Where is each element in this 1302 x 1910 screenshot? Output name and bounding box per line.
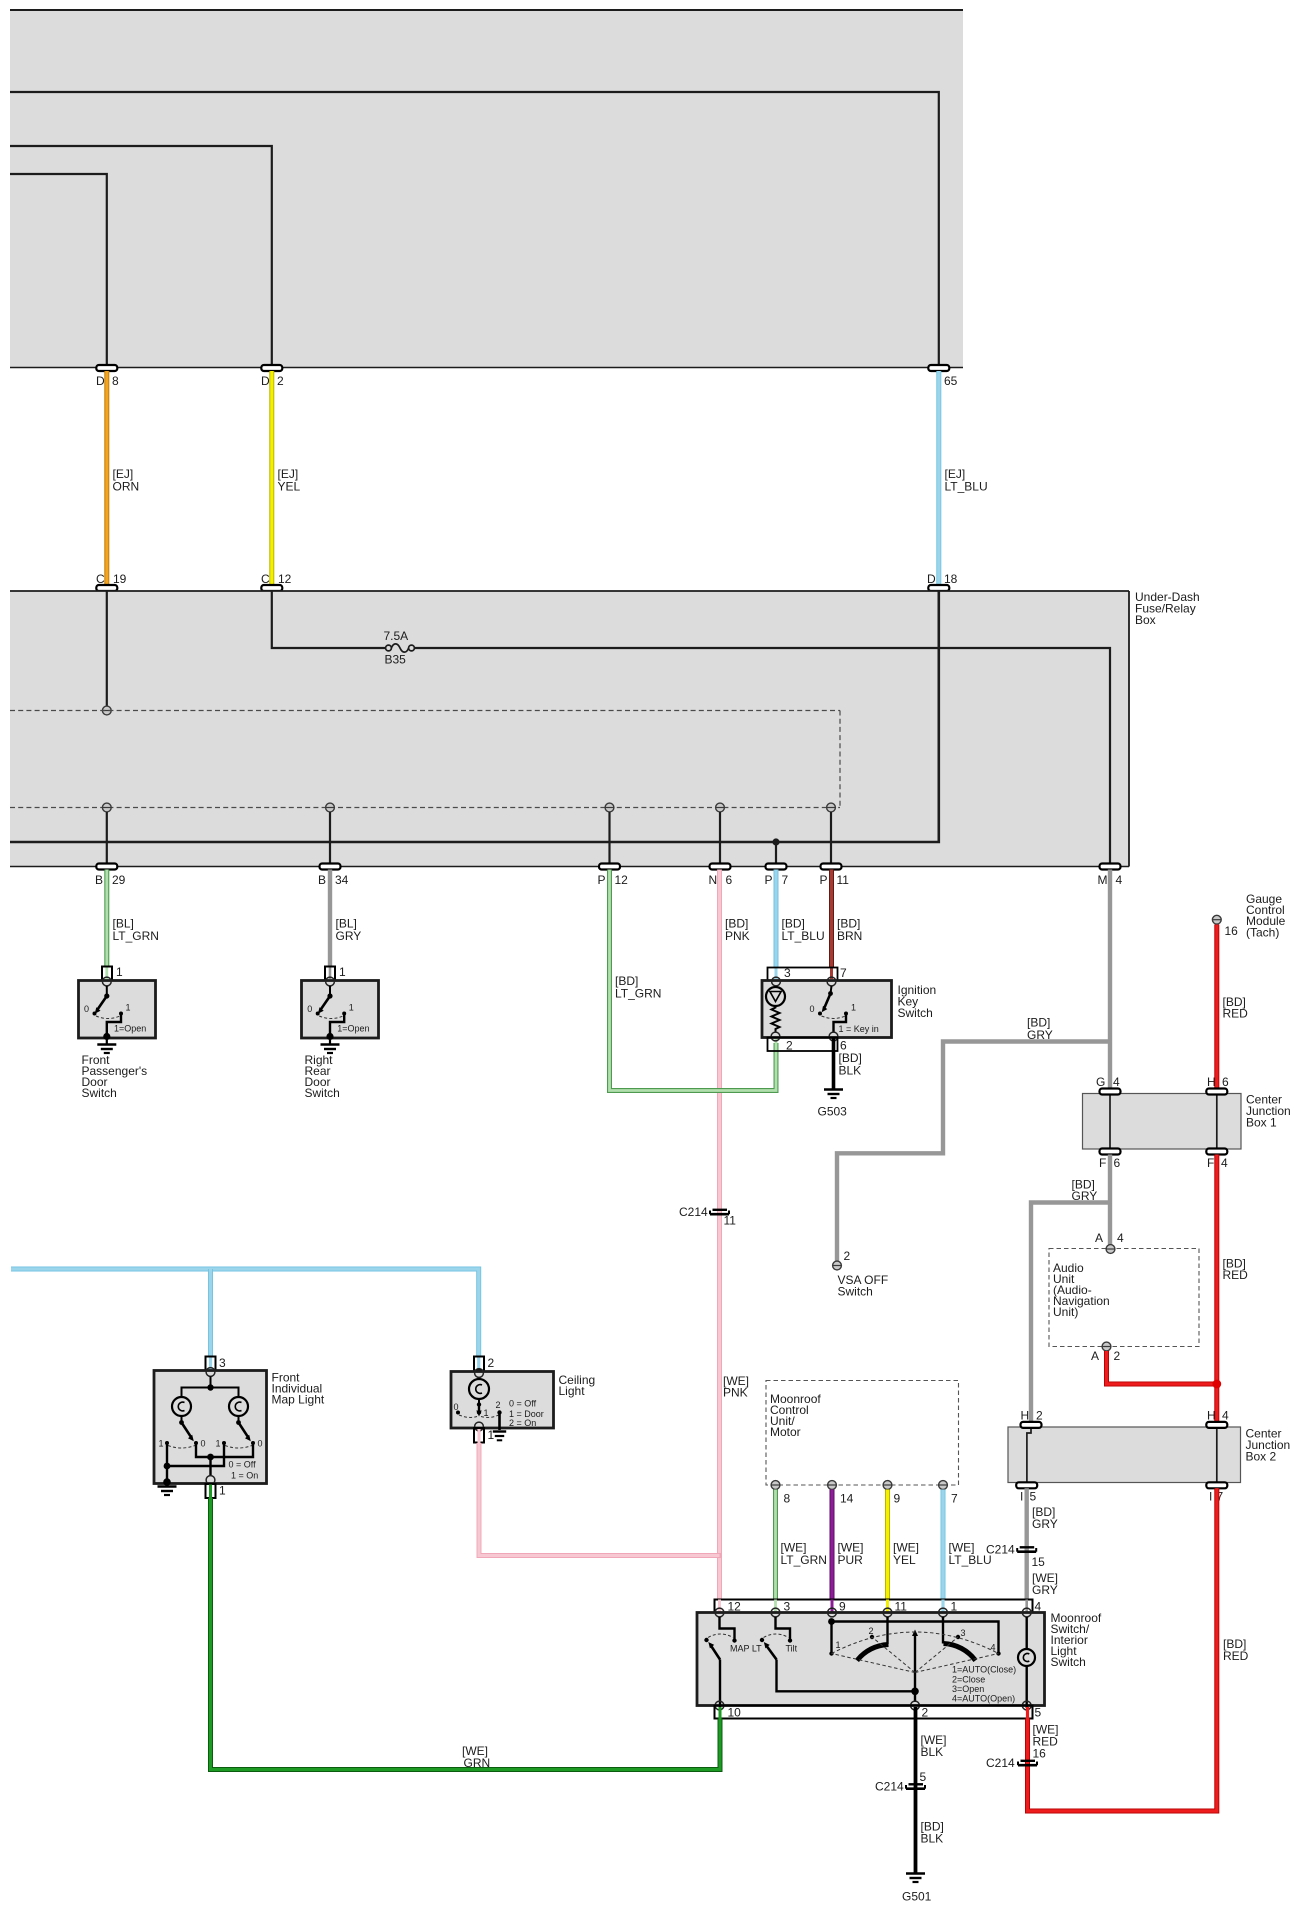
connector N6 — [709, 864, 733, 888]
ignition switch lever — [831, 986, 832, 994]
strip wire stubs — [720, 1600, 1027, 1613]
svg-text:I: I — [1209, 1490, 1212, 1504]
wire [EJ] ORN — [107, 371, 139, 585]
svg-text:8: 8 — [784, 1492, 791, 1506]
internal pin B34 — [326, 803, 335, 864]
internal bus line to D18 — [10, 591, 939, 842]
svg-text:2: 2 — [844, 1249, 851, 1263]
moonroof switch label — [1051, 1611, 1102, 1669]
wire [WE] LT_BLU pin 7 to moonroof switch pin 1 — [943, 1490, 992, 1612]
svg-text:2: 2 — [786, 1039, 793, 1053]
svg-text:1=AUTO(Close): 1=AUTO(Close) — [952, 1665, 1016, 1675]
svg-text:B35: B35 — [385, 653, 407, 667]
wire [BD] RED gauge to H6 — [1217, 925, 1248, 1090]
svg-text:2: 2 — [1036, 1409, 1043, 1423]
map light switch left — [181, 1416, 183, 1423]
svg-text:BRN: BRN — [837, 929, 862, 943]
svg-text:M: M — [1098, 873, 1108, 887]
svg-text:1: 1 — [851, 1003, 856, 1013]
svg-text:G501: G501 — [902, 1890, 932, 1904]
connector P11 — [820, 864, 850, 888]
svg-text:4: 4 — [1221, 1156, 1228, 1170]
svg-text:ORN: ORN — [113, 480, 140, 494]
wire [BD] LT_BLU P7 to ignition pin 3 — [776, 870, 825, 980]
svg-text:12: 12 — [278, 572, 292, 586]
wire [BD] PNK N6 to moonroof switch pin 12 — [720, 870, 750, 1612]
map light bulb right — [229, 1397, 248, 1416]
svg-text:H: H — [1021, 1409, 1030, 1423]
svg-text:Unit): Unit) — [1053, 1305, 1078, 1319]
svg-text:4: 4 — [1116, 873, 1123, 887]
svg-text:4: 4 — [1117, 1231, 1124, 1245]
VSA OFF switch pin 2 — [833, 1249, 889, 1299]
front individual map light — [154, 1356, 325, 1498]
map light switch right — [238, 1416, 240, 1423]
wire [BD] GRY M4 down — [1108, 870, 1112, 1090]
wire from fuse to M4 — [414, 648, 1110, 864]
svg-text:19: 19 — [113, 572, 127, 586]
svg-text:BLK: BLK — [921, 1832, 944, 1846]
svg-text:LT_GRN: LT_GRN — [113, 929, 159, 943]
svg-text:7: 7 — [782, 873, 789, 887]
body bottom pin circles — [715, 1701, 1031, 1710]
svg-text:Switch: Switch — [898, 1006, 933, 1020]
fuse 7.5A B35 — [384, 629, 415, 667]
svg-text:11: 11 — [837, 873, 850, 887]
connector M4 — [1098, 864, 1123, 888]
gauge control module pin 16 — [1212, 892, 1285, 940]
svg-text:C214: C214 — [679, 1205, 708, 1219]
svg-text:RED: RED — [1223, 1649, 1249, 1663]
svg-text:GRY: GRY — [1032, 1583, 1058, 1597]
top distribution box — [10, 9, 963, 368]
moonroof switch connector strip top — [715, 1600, 1033, 1613]
svg-text:Switch: Switch — [305, 1086, 340, 1100]
svg-text:1: 1 — [159, 1439, 164, 1449]
wire P7 to bus — [775, 842, 777, 864]
dashed internal connector row 2 — [10, 807, 840, 809]
svg-text:PNK: PNK — [723, 1386, 748, 1400]
ceiling light pin 1 — [475, 1422, 484, 1431]
moonroof switch connector strip bottom — [715, 1706, 1042, 1720]
wire [BD] RED audio A2 branch — [1107, 1351, 1222, 1388]
ceiling light — [451, 1356, 595, 1443]
C214 pin 15 on GRY wire — [986, 1543, 1045, 1570]
svg-text:16: 16 — [1033, 1747, 1047, 1761]
svg-text:10: 10 — [728, 1706, 742, 1720]
internal pin P11 — [827, 803, 836, 864]
svg-text:Box: Box — [1135, 613, 1156, 627]
svg-text:5: 5 — [1035, 1706, 1042, 1720]
connector F6 — [1099, 1149, 1121, 1171]
wire to pin D8 — [10, 174, 107, 365]
svg-text:G: G — [1096, 1075, 1105, 1089]
svg-text:GRY: GRY — [1027, 1028, 1053, 1042]
dashed internal connector right edge — [839, 711, 841, 808]
svg-text:0: 0 — [454, 1402, 459, 1412]
svg-text:0 = Off: 0 = Off — [229, 1460, 257, 1470]
svg-text:YEL: YEL — [278, 480, 301, 494]
svg-text:0: 0 — [201, 1439, 206, 1449]
svg-text:9: 9 — [894, 1492, 901, 1506]
svg-text:N: N — [709, 873, 718, 887]
wire [WE] LT_GRN pin 8 to moonroof switch pin 3 — [776, 1490, 827, 1612]
junction dot P7 bus — [772, 838, 779, 845]
connector P12 — [598, 864, 629, 888]
svg-text:G503: G503 — [818, 1105, 848, 1119]
wire [BD] GRY branch to VSA OFF switch — [837, 1016, 1110, 1262]
svg-text:12: 12 — [615, 873, 629, 887]
connector C19 — [96, 572, 127, 591]
dashed internal connector row 1 — [10, 710, 840, 712]
svg-text:P: P — [820, 873, 828, 887]
wire from C19 to internal pin — [102, 591, 111, 715]
ceiling light switch — [478, 1399, 480, 1405]
map light output to pin 1 — [196, 1443, 253, 1457]
svg-text:B: B — [318, 873, 326, 887]
audio unit pin A4 — [1095, 1231, 1124, 1253]
svg-text:F: F — [1099, 1156, 1106, 1170]
map light ground branch — [167, 1443, 224, 1466]
svg-text:65: 65 — [944, 374, 958, 388]
ignition lamp — [766, 987, 785, 1006]
interior light bulb — [1018, 1617, 1035, 1708]
svg-text:0: 0 — [810, 1004, 815, 1014]
wire [BD] LT_GRN P12 to ignition pin 2 — [610, 870, 777, 1091]
svg-text:H: H — [1207, 1075, 1216, 1089]
ignition resistor — [772, 1006, 780, 1032]
center junction box 2 — [1008, 1427, 1290, 1483]
svg-text:1=Open: 1=Open — [114, 1024, 146, 1034]
svg-text:4: 4 — [991, 1643, 996, 1653]
svg-text:PNK: PNK — [725, 929, 750, 943]
svg-text:16: 16 — [1225, 924, 1239, 938]
svg-text:C214: C214 — [986, 1756, 1015, 1770]
svg-text:2 = On: 2 = On — [509, 1418, 536, 1428]
svg-text:2: 2 — [277, 374, 284, 388]
svg-text:BLK: BLK — [839, 1064, 862, 1078]
ground G503 — [818, 1090, 848, 1119]
svg-text:2: 2 — [496, 1400, 501, 1410]
svg-text:0: 0 — [84, 1004, 89, 1014]
svg-text:RED: RED — [1223, 1007, 1249, 1021]
svg-text:Switch: Switch — [1051, 1655, 1086, 1669]
svg-text:1 = On: 1 = On — [231, 1471, 258, 1481]
svg-text:LT_BLU: LT_BLU — [945, 480, 988, 494]
svg-text:0: 0 — [258, 1439, 263, 1449]
svg-text:C214: C214 — [875, 1780, 904, 1794]
moonroof control unit pin 14 — [828, 1481, 854, 1506]
ceiling light ground from contact 2 — [498, 1413, 501, 1431]
svg-text:H: H — [1207, 1409, 1216, 1423]
svg-text:GRY: GRY — [336, 929, 362, 943]
wire [BL] GRY to right rear door switch — [330, 870, 361, 980]
svg-text:4=AUTO(Open): 4=AUTO(Open) — [952, 1694, 1015, 1704]
connector D2 — [261, 365, 284, 388]
svg-text:7.5A: 7.5A — [384, 629, 409, 643]
svg-text:1: 1 — [116, 965, 123, 979]
wire [BD] BRN P11 to ignition pin 7 — [832, 870, 863, 980]
svg-text:6: 6 — [1222, 1075, 1229, 1089]
svg-text:2: 2 — [869, 1626, 874, 1636]
svg-text:Box 1: Box 1 — [1246, 1116, 1277, 1130]
connector F4 — [1206, 1149, 1228, 1171]
svg-text:LT_BLU: LT_BLU — [949, 1553, 992, 1567]
svg-text:6: 6 — [726, 873, 733, 887]
MAP LT switch — [704, 1617, 762, 1708]
internal pin B29 — [102, 803, 111, 864]
moonroof control unit pin 7 — [939, 1481, 958, 1506]
svg-text:3=Open: 3=Open — [952, 1684, 984, 1694]
svg-text:Light: Light — [559, 1384, 586, 1398]
svg-text:B: B — [95, 873, 103, 887]
center junction box 1 — [1083, 1093, 1291, 1150]
svg-text:1: 1 — [836, 1640, 841, 1650]
svg-text:5: 5 — [1030, 1490, 1037, 1504]
svg-text:1: 1 — [339, 965, 346, 979]
connector G4 — [1096, 1075, 1121, 1095]
connector H2 — [1021, 1409, 1044, 1428]
connector D18 — [927, 572, 958, 591]
svg-text:1 = Key in: 1 = Key in — [839, 1024, 879, 1034]
svg-text:GRN: GRN — [464, 1756, 491, 1770]
ignition key switch — [762, 966, 936, 1053]
svg-text:6: 6 — [1114, 1156, 1121, 1170]
wire [BD] BLK ignition pin 6 to G503 — [834, 1038, 862, 1090]
svg-text:RED: RED — [1223, 1268, 1249, 1282]
svg-text:1: 1 — [349, 1003, 354, 1013]
ground G501 — [902, 1874, 932, 1904]
svg-text:0: 0 — [307, 1004, 312, 1014]
connector I7 — [1206, 1482, 1227, 1503]
Tilt switch — [760, 1617, 915, 1691]
connector P7 — [765, 864, 789, 888]
svg-text:Tilt: Tilt — [786, 1644, 798, 1654]
svg-text:Switch: Switch — [838, 1285, 873, 1299]
wire [WE]/[BD] BLK moonroof pin 2 to G501 — [916, 1707, 947, 1873]
svg-text:1=Open: 1=Open — [337, 1024, 369, 1034]
svg-text:Switch: Switch — [82, 1086, 117, 1100]
internal pin P12 — [605, 803, 614, 864]
svg-text:1: 1 — [484, 1408, 489, 1418]
svg-text:11: 11 — [724, 1214, 737, 1228]
svg-text:D: D — [261, 374, 270, 388]
svg-text:P: P — [765, 873, 773, 887]
connector B29 — [95, 864, 126, 888]
moonroof switch body — [697, 1613, 1045, 1706]
ceiling light bulb — [469, 1379, 489, 1399]
wire from C12 to fuse — [272, 591, 386, 648]
moonroof control unit pin 9 — [883, 1481, 900, 1506]
wire [EJ] YEL — [272, 371, 301, 585]
wire [WE] YEL pin 9 to moonroof switch pin 11 — [888, 1490, 920, 1612]
svg-text:Map Light: Map Light — [272, 1393, 325, 1407]
svg-text:2: 2 — [1114, 1349, 1121, 1363]
internal pin N6 — [716, 803, 725, 864]
connector C12 — [261, 572, 292, 591]
body top pin circles — [715, 1608, 1031, 1617]
svg-text:PUR: PUR — [838, 1553, 864, 1567]
strip pin numbers — [728, 1600, 1042, 1614]
svg-text:7: 7 — [951, 1492, 958, 1506]
svg-text:BLK: BLK — [921, 1745, 944, 1759]
connector I5 — [1016, 1482, 1037, 1503]
wire to pin 65 — [10, 92, 939, 365]
connector B34 — [318, 864, 349, 888]
wire [WE] PUR pin 14 to moonroof switch pin 9 — [832, 1490, 864, 1612]
svg-text:LT_GRN: LT_GRN — [615, 987, 661, 1001]
svg-text:GRY: GRY — [1072, 1189, 1098, 1203]
C214 pin 16 on RED wire — [986, 1756, 1037, 1770]
connector H4 — [1206, 1409, 1229, 1428]
svg-text:GRY: GRY — [1032, 1517, 1058, 1531]
moonroof rotary switch — [828, 1617, 1016, 1704]
svg-text:LT_BLU: LT_BLU — [782, 929, 825, 943]
connector 65 — [928, 365, 957, 388]
svg-text:5: 5 — [920, 1770, 927, 1784]
wire to pin D2 — [10, 146, 272, 365]
svg-text:1: 1 — [219, 1484, 226, 1498]
svg-text:14: 14 — [840, 1492, 854, 1506]
svg-text:7: 7 — [840, 966, 847, 980]
wire [BD] RED F4 to H4 — [1217, 1155, 1248, 1423]
svg-text:LT_GRN: LT_GRN — [781, 1553, 827, 1567]
wire [WE] PNK ceiling light to moonroof switch — [479, 1374, 749, 1556]
C214 pin 11 on PNK wire — [679, 1205, 736, 1228]
wire [BD] GRY F6 to audio unit A4 and CJB2 H2 — [1031, 1155, 1110, 1423]
moonroof control unit pin 8 — [771, 1481, 790, 1506]
wire [WE]/[BD] RED moonroof pin 5 to I7 — [1028, 1488, 1249, 1811]
svg-text:1: 1 — [126, 1003, 131, 1013]
svg-text:Box 2: Box 2 — [1246, 1450, 1277, 1464]
svg-text:29: 29 — [112, 873, 126, 887]
svg-text:4: 4 — [1113, 1075, 1120, 1089]
right rear door switch — [302, 965, 379, 1100]
svg-text:I: I — [1020, 1490, 1023, 1504]
audio unit pin A2 — [1091, 1342, 1121, 1363]
connector D8 — [96, 365, 119, 388]
svg-text:4: 4 — [1222, 1409, 1229, 1423]
wire [BD]/[WE] GRY I5 to moonroof pin 4 — [1027, 1488, 1058, 1611]
svg-text:2: 2 — [488, 1356, 495, 1370]
front passenger's door switch — [79, 965, 156, 1100]
svg-text:YEL: YEL — [893, 1553, 916, 1567]
svg-text:(Tach): (Tach) — [1246, 926, 1279, 940]
svg-text:1: 1 — [488, 1428, 495, 1442]
svg-text:2=Close: 2=Close — [952, 1675, 985, 1685]
connector H6 — [1206, 1075, 1229, 1095]
svg-text:Motor: Motor — [770, 1425, 801, 1439]
svg-text:2: 2 — [922, 1706, 929, 1720]
wire [EJ] LT_BLU — [939, 371, 988, 585]
svg-text:3: 3 — [219, 1356, 226, 1370]
moonroof control unit dashed box — [766, 1381, 959, 1486]
svg-text:1: 1 — [216, 1439, 221, 1449]
svg-text:F: F — [1207, 1156, 1214, 1170]
svg-text:3: 3 — [961, 1628, 966, 1638]
wire LT_BLU bus to map light and ceiling light — [11, 1269, 479, 1370]
audio unit dashed box — [1049, 1249, 1199, 1347]
under-dash fuse/relay box — [10, 590, 1200, 867]
svg-text:A: A — [1095, 1231, 1103, 1245]
svg-text:0 = Off: 0 = Off — [509, 1399, 537, 1409]
svg-text:8: 8 — [112, 374, 119, 388]
C214 pin 5 on BLK wire — [875, 1770, 927, 1794]
svg-text:3: 3 — [784, 966, 791, 980]
map light bulb left — [172, 1397, 191, 1416]
svg-text:P: P — [598, 873, 606, 887]
svg-text:34: 34 — [335, 873, 349, 887]
svg-text:A: A — [1091, 1349, 1099, 1363]
wire [WE] GRN map light to moonroof pin 10 — [211, 1485, 721, 1771]
svg-text:MAP LT: MAP LT — [730, 1644, 762, 1654]
svg-text:D: D — [96, 374, 105, 388]
wire [BL] LT_GRN to front passenger door switch — [107, 870, 159, 980]
svg-text:15: 15 — [1032, 1555, 1046, 1569]
